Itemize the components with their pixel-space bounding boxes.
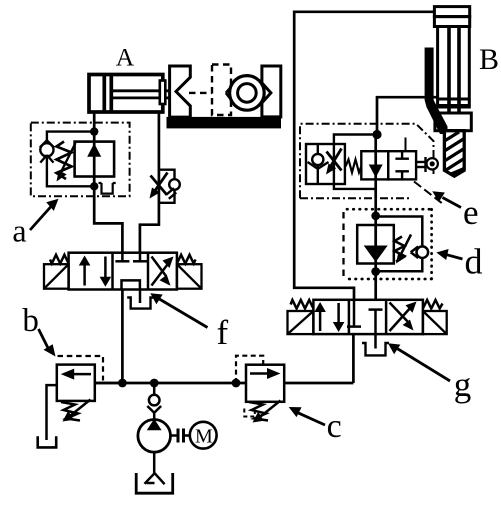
- svg-text:e: e: [463, 193, 479, 232]
- svg-text:b: b: [22, 303, 39, 339]
- svg-text:c: c: [327, 408, 342, 445]
- svg-text:B: B: [479, 43, 499, 76]
- svg-text:f: f: [216, 313, 228, 352]
- svg-text:A: A: [116, 43, 135, 72]
- svg-text:M: M: [195, 425, 213, 447]
- svg-text:a: a: [12, 213, 26, 249]
- svg-text:g: g: [454, 365, 472, 404]
- svg-text:d: d: [465, 242, 483, 282]
